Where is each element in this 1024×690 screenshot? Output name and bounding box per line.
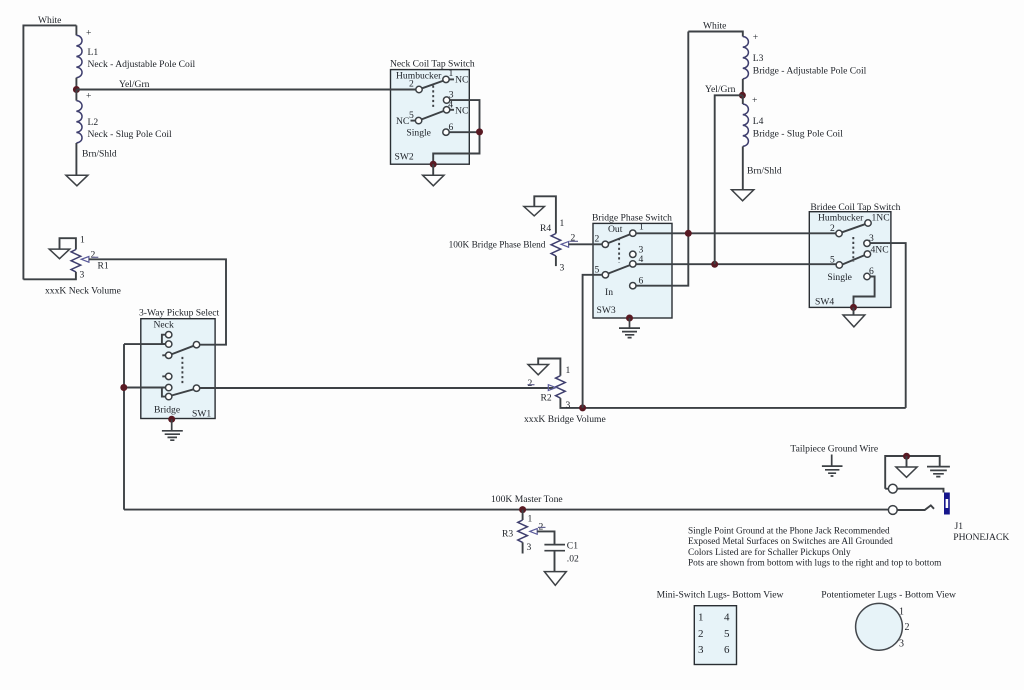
- svg-text:SW3: SW3: [597, 305, 616, 316]
- svg-text:+: +: [753, 32, 758, 43]
- svg-text:NC: NC: [455, 106, 468, 117]
- svg-text:2: 2: [905, 622, 910, 633]
- svg-text:SW2: SW2: [395, 152, 414, 163]
- svg-text:2: 2: [830, 223, 835, 234]
- svg-text:Out: Out: [608, 224, 623, 235]
- svg-text:Tailpiece Ground Wire: Tailpiece Ground Wire: [790, 444, 878, 455]
- svg-text:L2: L2: [88, 117, 99, 128]
- svg-text:L3: L3: [753, 53, 764, 64]
- svg-text:+: +: [86, 28, 91, 39]
- svg-text:J1: J1: [955, 521, 964, 532]
- svg-text:1: 1: [449, 68, 454, 79]
- svg-text:5: 5: [724, 628, 730, 640]
- svg-text:1: 1: [698, 612, 704, 624]
- svg-text:6: 6: [724, 644, 730, 656]
- svg-text:1: 1: [566, 365, 571, 376]
- svg-text:3: 3: [560, 263, 565, 274]
- svg-text:In: In: [605, 287, 613, 298]
- svg-text:Exposed Metal Surfaces on Swit: Exposed Metal Surfaces on Switches are A…: [688, 536, 893, 547]
- svg-text:5: 5: [595, 265, 600, 276]
- svg-text:SW4: SW4: [815, 297, 834, 308]
- svg-text:Pots are shown from bottom wit: Pots are shown from bottom with lugs to …: [688, 558, 942, 569]
- svg-text:R2: R2: [541, 393, 552, 404]
- svg-text:SW1: SW1: [192, 409, 211, 420]
- svg-text:Yel/Grn: Yel/Grn: [119, 79, 150, 90]
- svg-text:Neck - Adjustable Pole Coil: Neck - Adjustable Pole Coil: [88, 59, 196, 70]
- svg-text:+: +: [86, 91, 91, 102]
- svg-text:4: 4: [724, 612, 730, 624]
- svg-text:R1: R1: [98, 261, 109, 272]
- svg-text:Humbucker: Humbucker: [818, 213, 864, 224]
- svg-text:4NC: 4NC: [871, 245, 889, 256]
- svg-text:Potentiometer Lugs - Bottom Vi: Potentiometer Lugs - Bottom View: [821, 589, 956, 600]
- svg-text:NC: NC: [396, 116, 409, 127]
- svg-text:+: +: [752, 95, 757, 106]
- svg-text:Bridee Coil Tap Switch: Bridee Coil Tap Switch: [810, 202, 900, 213]
- svg-text:R3: R3: [502, 529, 513, 540]
- svg-text:4: 4: [448, 100, 453, 111]
- svg-text:1: 1: [899, 607, 904, 618]
- svg-text:xxxK Neck Volume: xxxK Neck Volume: [45, 286, 121, 297]
- svg-text:.02: .02: [567, 554, 579, 565]
- svg-text:Single: Single: [827, 272, 852, 283]
- svg-text:1: 1: [80, 235, 85, 246]
- svg-text:Single Point Ground at the Pho: Single Point Ground at the Phone Jack Re…: [688, 527, 890, 537]
- svg-text:2: 2: [595, 234, 600, 245]
- svg-text:Humbucker: Humbucker: [396, 71, 442, 82]
- svg-text:Neck - Slug Pole Coil: Neck - Slug Pole Coil: [88, 129, 173, 140]
- svg-text:PHONEJACK: PHONEJACK: [953, 532, 1009, 543]
- svg-text:Brn/Shld: Brn/Shld: [747, 166, 782, 177]
- svg-text:Bridge Phase Switch: Bridge Phase Switch: [592, 213, 672, 224]
- svg-text:Neck Coil Tap Switch: Neck Coil Tap Switch: [390, 59, 475, 70]
- svg-text:L4: L4: [753, 116, 764, 127]
- svg-text:Brn/Shld: Brn/Shld: [82, 149, 117, 160]
- svg-text:1: 1: [639, 222, 644, 233]
- svg-text:2: 2: [91, 249, 96, 260]
- svg-text:5: 5: [830, 255, 835, 266]
- svg-text:L1: L1: [88, 47, 99, 58]
- svg-text:1NC: 1NC: [872, 213, 890, 224]
- svg-text:3: 3: [80, 269, 85, 280]
- svg-text:Mini-Switch Lugs- Bottom View: Mini-Switch Lugs- Bottom View: [657, 589, 784, 600]
- svg-text:C1: C1: [567, 541, 578, 552]
- svg-text:3: 3: [566, 400, 571, 411]
- svg-text:Bridge - Adjustable Pole Coil: Bridge - Adjustable Pole Coil: [753, 66, 867, 77]
- svg-text:100K Master Tone: 100K Master Tone: [491, 494, 563, 505]
- svg-text:Colors Listed are for Schaller: Colors Listed are for Schaller Pickups O…: [688, 547, 851, 558]
- svg-text:2: 2: [528, 378, 533, 389]
- svg-text:3: 3: [899, 639, 904, 650]
- svg-text:R4: R4: [540, 223, 551, 234]
- svg-text:3: 3: [698, 644, 704, 656]
- svg-text:xxxK Bridge Volume: xxxK Bridge Volume: [524, 414, 606, 425]
- svg-text:100K Bridge Phase Blend: 100K Bridge Phase Blend: [449, 241, 546, 251]
- svg-text:6: 6: [869, 266, 874, 277]
- svg-text:White: White: [703, 21, 726, 32]
- svg-text:Neck: Neck: [154, 320, 174, 331]
- svg-text:1: 1: [560, 218, 565, 229]
- svg-text:Bridge: Bridge: [154, 405, 180, 416]
- svg-text:3: 3: [869, 233, 874, 244]
- svg-text:2: 2: [409, 79, 414, 90]
- svg-text:White: White: [38, 15, 61, 26]
- svg-text:3: 3: [527, 542, 532, 553]
- svg-text:5: 5: [409, 110, 414, 121]
- svg-text:2: 2: [698, 628, 704, 640]
- svg-text:Single: Single: [406, 128, 431, 139]
- svg-text:NC: NC: [455, 75, 468, 86]
- svg-text:Bridge - Slug Pole Coil: Bridge - Slug Pole Coil: [753, 129, 843, 140]
- svg-text:1: 1: [528, 514, 533, 525]
- svg-text:Yel/Grn: Yel/Grn: [705, 84, 736, 95]
- svg-text:3-Way Pickup Select: 3-Way Pickup Select: [139, 308, 220, 319]
